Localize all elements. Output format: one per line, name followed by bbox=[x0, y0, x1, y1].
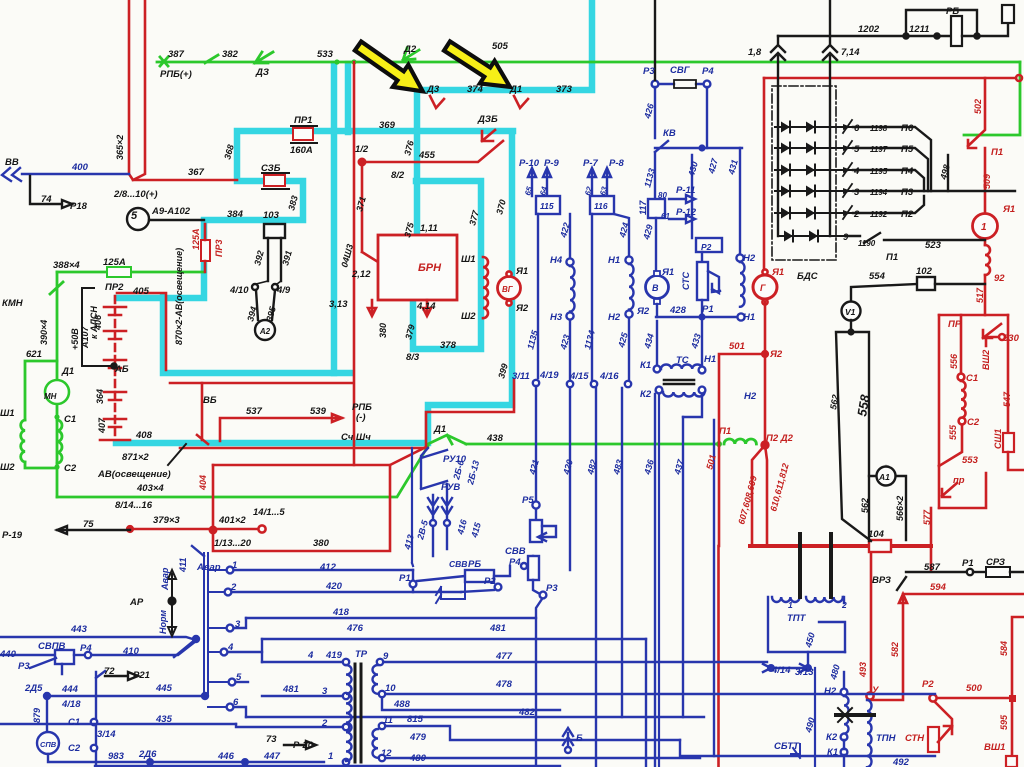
svg-text:ТПН: ТПН bbox=[876, 733, 897, 744]
svg-text:582: 582 bbox=[890, 642, 900, 657]
svg-text:Р2: Р2 bbox=[701, 242, 712, 252]
svg-text:408: 408 bbox=[135, 430, 153, 441]
svg-text:СРЗ: СРЗ bbox=[986, 557, 1005, 568]
svg-text:Я1: Я1 bbox=[771, 267, 784, 278]
svg-text:Ш2: Ш2 bbox=[0, 462, 15, 473]
svg-text:ПР: ПР bbox=[948, 319, 962, 330]
svg-text:АР: АР bbox=[129, 597, 144, 608]
svg-text:5: 5 bbox=[131, 210, 138, 222]
svg-text:61: 61 bbox=[661, 212, 670, 221]
svg-text:365×2: 365×2 bbox=[115, 135, 125, 160]
svg-text:Р4: Р4 bbox=[509, 557, 521, 568]
svg-text:2Д5: 2Д5 bbox=[24, 683, 43, 694]
svg-text:С1: С1 bbox=[64, 414, 76, 425]
svg-text:14/1...5: 14/1...5 bbox=[253, 507, 285, 518]
svg-text:1195: 1195 bbox=[870, 167, 888, 176]
svg-text:445: 445 bbox=[155, 683, 173, 694]
svg-text:РБ: РБ bbox=[468, 559, 481, 570]
svg-text:Д3: Д3 bbox=[426, 84, 440, 95]
svg-text:3/11: 3/11 bbox=[512, 371, 530, 382]
svg-text:369: 369 bbox=[379, 120, 396, 131]
svg-text:3/13: 3/13 bbox=[795, 667, 814, 678]
svg-text:пр: пр bbox=[953, 475, 965, 486]
svg-text:Н2: Н2 bbox=[744, 391, 757, 402]
svg-text:(-): (-) bbox=[356, 412, 366, 423]
svg-text:125А: 125А bbox=[103, 257, 126, 268]
svg-text:8/14...16: 8/14...16 bbox=[115, 500, 153, 511]
svg-text:Н1: Н1 bbox=[608, 255, 620, 266]
svg-text:РПБ(+): РПБ(+) bbox=[160, 69, 192, 80]
svg-text:V1: V1 bbox=[845, 307, 856, 317]
svg-text:2: 2 bbox=[321, 718, 328, 729]
svg-text:ВБ: ВБ bbox=[203, 395, 217, 406]
svg-text:Р-8: Р-8 bbox=[609, 158, 625, 169]
svg-text:428: 428 bbox=[669, 305, 687, 316]
svg-text:493: 493 bbox=[858, 662, 868, 678]
svg-text:92: 92 bbox=[994, 273, 1005, 284]
svg-text:БРН: БРН bbox=[418, 262, 442, 274]
svg-text:9: 9 bbox=[843, 232, 849, 243]
svg-text:СЗБ: СЗБ bbox=[261, 163, 281, 174]
svg-text:Б: Б bbox=[576, 733, 583, 744]
svg-text:75: 75 bbox=[83, 519, 94, 530]
svg-text:380: 380 bbox=[313, 538, 330, 549]
svg-text:1,11: 1,11 bbox=[420, 223, 438, 234]
svg-text:Р-11: Р-11 bbox=[676, 185, 695, 196]
svg-text:С1: С1 bbox=[966, 373, 978, 384]
svg-text:СВПВ: СВПВ bbox=[38, 641, 66, 652]
svg-text:2/8...10(+): 2/8...10(+) bbox=[113, 189, 158, 200]
svg-text:БДС: БДС bbox=[797, 271, 818, 282]
svg-text:373: 373 bbox=[556, 84, 573, 95]
svg-text:388×4: 388×4 bbox=[53, 260, 80, 271]
svg-text:9: 9 bbox=[383, 651, 389, 662]
svg-text:П1: П1 bbox=[991, 147, 1003, 158]
svg-text:584: 584 bbox=[999, 641, 1009, 656]
svg-text:476: 476 bbox=[346, 623, 364, 634]
svg-text:АБ: АБ bbox=[114, 364, 129, 375]
svg-text:КВ: КВ bbox=[663, 128, 676, 139]
svg-text:П2: П2 bbox=[901, 209, 914, 220]
svg-text:406: 406 bbox=[93, 314, 103, 331]
svg-text:384: 384 bbox=[227, 209, 244, 220]
svg-text:447: 447 bbox=[263, 751, 281, 762]
svg-text:547: 547 bbox=[1002, 391, 1012, 407]
svg-text:ПР2: ПР2 bbox=[105, 282, 124, 293]
svg-text:412: 412 bbox=[319, 562, 337, 573]
svg-text:4/10: 4/10 bbox=[229, 285, 249, 296]
svg-text:440: 440 bbox=[0, 649, 17, 660]
svg-text:505: 505 bbox=[492, 41, 509, 52]
svg-text:П2 Д2: П2 Д2 bbox=[766, 433, 794, 444]
svg-text:555: 555 bbox=[948, 424, 958, 440]
svg-text:5: 5 bbox=[854, 144, 860, 155]
svg-text:435: 435 bbox=[155, 714, 173, 725]
svg-text:479: 479 bbox=[409, 732, 427, 743]
svg-text:1: 1 bbox=[788, 600, 793, 610]
svg-text:517: 517 bbox=[975, 287, 985, 303]
svg-text:2: 2 bbox=[230, 582, 237, 593]
svg-text:П4: П4 bbox=[901, 166, 914, 177]
svg-text:103: 103 bbox=[263, 210, 280, 221]
svg-text:АВ(освещение): АВ(освещение) bbox=[97, 469, 171, 480]
svg-text:+50В: +50В bbox=[70, 328, 80, 350]
svg-text:Я1: Я1 bbox=[515, 266, 528, 277]
svg-text:Р-19: Р-19 bbox=[2, 530, 23, 541]
svg-text:К1: К1 bbox=[640, 360, 651, 371]
svg-text:115: 115 bbox=[540, 201, 554, 211]
svg-text:СПВ: СПВ bbox=[40, 740, 57, 749]
svg-text:478: 478 bbox=[495, 679, 513, 690]
svg-text:477: 477 bbox=[495, 651, 513, 662]
svg-text:1190: 1190 bbox=[858, 239, 876, 248]
svg-text:502: 502 bbox=[973, 99, 983, 114]
svg-text:523: 523 bbox=[925, 240, 942, 251]
svg-text:РБ: РБ bbox=[946, 6, 959, 17]
svg-text:2: 2 bbox=[853, 209, 860, 220]
svg-text:7,14: 7,14 bbox=[841, 47, 860, 58]
svg-text:ДЗ: ДЗ bbox=[255, 67, 269, 78]
svg-text:2Д6: 2Д6 bbox=[138, 749, 157, 760]
svg-text:1197: 1197 bbox=[870, 145, 888, 154]
svg-text:3: 3 bbox=[854, 187, 860, 198]
svg-text:П1: П1 bbox=[886, 252, 898, 263]
svg-text:621: 621 bbox=[26, 349, 42, 360]
svg-text:П6: П6 bbox=[901, 123, 914, 134]
svg-text:4: 4 bbox=[853, 166, 860, 177]
svg-text:ВШ2: ВШ2 bbox=[981, 350, 991, 370]
svg-text:102: 102 bbox=[916, 266, 933, 277]
svg-text:4,14: 4,14 bbox=[416, 301, 436, 312]
svg-text:В: В bbox=[652, 283, 659, 293]
svg-text:Р21: Р21 bbox=[133, 670, 150, 681]
svg-text:Р-10: Р-10 bbox=[519, 158, 540, 169]
svg-text:Д1: Д1 bbox=[61, 366, 74, 377]
svg-text:Р2: Р2 bbox=[922, 679, 934, 690]
svg-text:Н3: Н3 bbox=[550, 312, 563, 323]
svg-text:438: 438 bbox=[486, 433, 504, 444]
svg-text:1194: 1194 bbox=[870, 188, 888, 197]
svg-text:10: 10 bbox=[385, 683, 396, 694]
svg-text:ВШ1: ВШ1 bbox=[984, 742, 1005, 753]
svg-text:Ш1: Ш1 bbox=[0, 408, 15, 419]
svg-text:А9-А102: А9-А102 bbox=[151, 206, 191, 217]
svg-text:364: 364 bbox=[95, 389, 105, 404]
svg-text:382: 382 bbox=[222, 49, 239, 60]
svg-text:80: 80 bbox=[658, 191, 667, 200]
svg-text:4: 4 bbox=[307, 650, 314, 661]
svg-text:390×4: 390×4 bbox=[39, 320, 49, 345]
svg-text:П1: П1 bbox=[719, 426, 731, 437]
svg-text:Ш1: Ш1 bbox=[461, 254, 476, 265]
svg-text:8/2: 8/2 bbox=[391, 170, 405, 181]
svg-text:3,13: 3,13 bbox=[329, 299, 348, 310]
svg-text:Я2: Я2 bbox=[636, 306, 650, 317]
svg-text:РУВ: РУВ bbox=[441, 482, 460, 493]
svg-text:403×4: 403×4 bbox=[136, 483, 164, 494]
svg-text:125А: 125А bbox=[191, 228, 201, 250]
svg-text:367: 367 bbox=[188, 167, 205, 178]
svg-text:481: 481 bbox=[489, 623, 506, 634]
svg-text:378: 378 bbox=[440, 340, 457, 351]
svg-text:387: 387 bbox=[168, 49, 185, 60]
svg-text:419: 419 bbox=[325, 650, 343, 661]
svg-text:1/13...20: 1/13...20 bbox=[214, 538, 252, 549]
svg-text:Р3: Р3 bbox=[546, 583, 558, 594]
svg-text:ТПТ: ТПТ bbox=[787, 613, 807, 624]
svg-text:Р-7: Р-7 bbox=[583, 158, 599, 169]
svg-text:420: 420 bbox=[325, 581, 343, 592]
svg-text:8/3: 8/3 bbox=[406, 352, 420, 363]
svg-text:Н2: Н2 bbox=[743, 253, 756, 264]
svg-text:С2: С2 bbox=[967, 417, 980, 428]
svg-text:Р3: Р3 bbox=[643, 66, 655, 77]
svg-text:3: 3 bbox=[322, 686, 328, 697]
svg-text:410: 410 bbox=[122, 646, 140, 657]
svg-text:ТС: ТС bbox=[676, 355, 689, 366]
svg-text:117: 117 bbox=[638, 200, 648, 215]
svg-text:556: 556 bbox=[949, 353, 959, 369]
svg-text:1198: 1198 bbox=[870, 124, 888, 133]
svg-text:ВГ: ВГ bbox=[502, 285, 514, 294]
svg-text:Р-12: Р-12 bbox=[676, 207, 697, 218]
svg-text:Р-9: Р-9 bbox=[544, 158, 560, 169]
svg-text:530: 530 bbox=[1003, 333, 1020, 344]
svg-text:444: 444 bbox=[61, 684, 79, 695]
svg-text:МН: МН bbox=[44, 392, 57, 401]
svg-text:СВГ: СВГ bbox=[670, 65, 691, 76]
svg-text:Я2: Я2 bbox=[769, 349, 783, 360]
svg-text:ДЗБ: ДЗБ bbox=[477, 114, 498, 125]
svg-text:Д2: Д2 bbox=[403, 44, 417, 55]
svg-text:К1: К1 bbox=[827, 747, 838, 758]
svg-text:74: 74 bbox=[41, 194, 52, 205]
svg-text:КМН: КМН bbox=[2, 298, 24, 309]
svg-text:4/19: 4/19 bbox=[539, 370, 559, 381]
svg-text:481: 481 bbox=[282, 684, 299, 695]
svg-text:566×2: 566×2 bbox=[895, 496, 905, 521]
svg-text:1: 1 bbox=[981, 222, 987, 233]
svg-text:1192: 1192 bbox=[870, 210, 888, 219]
svg-text:1211: 1211 bbox=[909, 24, 929, 35]
svg-text:А2: А2 bbox=[259, 327, 271, 336]
svg-text:Р-20: Р-20 bbox=[293, 740, 314, 751]
svg-text:12: 12 bbox=[381, 748, 392, 759]
svg-text:72: 72 bbox=[104, 666, 115, 677]
svg-text:379×3: 379×3 bbox=[153, 515, 180, 526]
svg-text:СВВ: СВВ bbox=[505, 546, 526, 557]
svg-text:537: 537 bbox=[246, 406, 263, 417]
svg-text:4/14: 4/14 bbox=[771, 665, 791, 676]
svg-text:553: 553 bbox=[962, 455, 979, 466]
svg-text:492: 492 bbox=[892, 757, 910, 767]
svg-text:1: 1 bbox=[328, 751, 333, 762]
svg-text:407: 407 bbox=[97, 417, 107, 434]
svg-text:Н1: Н1 bbox=[704, 354, 716, 365]
svg-text:Р4: Р4 bbox=[80, 643, 92, 654]
svg-text:533: 533 bbox=[317, 49, 334, 60]
svg-text:ТР: ТР bbox=[355, 649, 368, 660]
svg-text:ПР1: ПР1 bbox=[294, 115, 312, 126]
svg-text:443: 443 bbox=[70, 624, 88, 635]
svg-text:Н2: Н2 bbox=[608, 312, 621, 323]
svg-text:587: 587 bbox=[924, 562, 941, 573]
svg-text:Г: Г bbox=[760, 283, 766, 293]
svg-text:П5: П5 bbox=[901, 144, 914, 155]
svg-text:815: 815 bbox=[407, 714, 424, 725]
svg-text:4/18: 4/18 bbox=[61, 699, 81, 710]
svg-text:500: 500 bbox=[966, 683, 983, 694]
svg-text:2,12: 2,12 bbox=[351, 269, 371, 280]
svg-text:Р5: Р5 bbox=[522, 495, 534, 506]
svg-text:ВРЗ: ВРЗ bbox=[872, 575, 891, 586]
svg-text:983: 983 bbox=[108, 751, 125, 762]
svg-text:554: 554 bbox=[869, 271, 886, 282]
svg-text:400: 400 bbox=[71, 162, 89, 173]
svg-text:С2: С2 bbox=[64, 463, 77, 474]
svg-text:11: 11 bbox=[383, 715, 393, 726]
svg-text:С1: С1 bbox=[68, 717, 80, 728]
svg-text:А1: А1 bbox=[878, 472, 890, 482]
svg-text:Н2: Н2 bbox=[824, 686, 837, 697]
svg-text:455: 455 bbox=[418, 150, 436, 161]
svg-text:2: 2 bbox=[841, 600, 847, 610]
svg-text:Я1: Я1 bbox=[661, 267, 674, 278]
svg-text:1/2: 1/2 bbox=[355, 144, 369, 155]
svg-text:595: 595 bbox=[999, 714, 1009, 730]
svg-text:1,8: 1,8 bbox=[748, 47, 762, 58]
svg-text:879: 879 bbox=[32, 708, 42, 723]
svg-text:Р1: Р1 bbox=[399, 573, 411, 584]
svg-text:5: 5 bbox=[236, 672, 242, 683]
svg-text:160А: 160А bbox=[290, 145, 313, 156]
svg-text:СШ1: СШ1 bbox=[993, 429, 1003, 449]
svg-text:Р18: Р18 bbox=[70, 201, 88, 212]
svg-text:Авар: Авар bbox=[160, 567, 170, 591]
svg-text:562: 562 bbox=[860, 498, 870, 513]
svg-text:1: 1 bbox=[232, 560, 237, 571]
svg-text:6: 6 bbox=[233, 697, 239, 708]
svg-text:Я1: Я1 bbox=[1002, 204, 1015, 215]
svg-text:Н1: Н1 bbox=[743, 312, 755, 323]
svg-text:Р1: Р1 bbox=[702, 304, 714, 315]
svg-text:73: 73 bbox=[266, 734, 277, 745]
svg-text:Авар: Авар bbox=[196, 562, 221, 573]
svg-text:4: 4 bbox=[227, 642, 234, 653]
svg-text:ВВ: ВВ bbox=[5, 157, 19, 168]
svg-text:539: 539 bbox=[310, 406, 327, 417]
svg-text:4/15: 4/15 bbox=[569, 371, 589, 382]
svg-text:СТС: СТС bbox=[681, 271, 691, 290]
svg-text:Д1: Д1 bbox=[433, 424, 446, 435]
svg-text:Н4: Н4 bbox=[550, 255, 563, 266]
svg-text:404: 404 bbox=[198, 475, 208, 491]
svg-text:Сч Шч: Сч Шч bbox=[341, 432, 371, 443]
svg-text:Ш2: Ш2 bbox=[461, 311, 476, 322]
svg-text:405: 405 bbox=[132, 286, 150, 297]
svg-text:871×2: 871×2 bbox=[122, 452, 149, 463]
svg-text:411: 411 bbox=[178, 558, 188, 573]
svg-text:С2: С2 bbox=[68, 743, 81, 754]
svg-text:488: 488 bbox=[393, 699, 411, 710]
svg-text:594: 594 bbox=[930, 582, 947, 593]
svg-text:480: 480 bbox=[409, 753, 427, 764]
svg-text:482: 482 bbox=[518, 707, 536, 718]
svg-text:6: 6 bbox=[854, 123, 860, 134]
svg-text:401×2: 401×2 bbox=[218, 515, 246, 526]
svg-text:Я2: Я2 bbox=[515, 303, 529, 314]
svg-text:СТН: СТН bbox=[905, 733, 925, 744]
svg-text:К2: К2 bbox=[826, 732, 838, 743]
svg-text:870×2-АВ(освещение): 870×2-АВ(освещение) bbox=[174, 248, 184, 345]
svg-text:К2: К2 bbox=[640, 389, 652, 400]
svg-text:Р4: Р4 bbox=[702, 66, 714, 77]
svg-text:380: 380 bbox=[378, 323, 388, 338]
svg-text:Р2: Р2 bbox=[484, 576, 496, 587]
svg-text:4/9: 4/9 bbox=[276, 285, 291, 296]
svg-text:Р3: Р3 bbox=[18, 661, 30, 672]
svg-text:104: 104 bbox=[868, 529, 885, 540]
svg-text:1202: 1202 bbox=[858, 24, 880, 35]
svg-text:Р1: Р1 bbox=[962, 558, 974, 569]
svg-text:577: 577 bbox=[922, 509, 932, 525]
svg-text:116: 116 bbox=[594, 201, 608, 211]
svg-text:СВВ: СВВ bbox=[449, 559, 467, 569]
svg-text:П3: П3 bbox=[901, 187, 914, 198]
svg-text:418: 418 bbox=[332, 607, 350, 618]
svg-text:СБТТ: СБТТ bbox=[774, 741, 800, 752]
svg-text:501: 501 bbox=[729, 341, 745, 352]
svg-text:3: 3 bbox=[235, 619, 241, 630]
svg-text:446: 446 bbox=[217, 751, 235, 762]
svg-text:ПР3: ПР3 bbox=[214, 240, 224, 257]
svg-text:Норм: Норм bbox=[158, 610, 168, 634]
svg-text:3/14: 3/14 bbox=[97, 729, 116, 740]
svg-text:509: 509 bbox=[982, 174, 992, 189]
svg-text:4/16: 4/16 bbox=[599, 371, 619, 382]
